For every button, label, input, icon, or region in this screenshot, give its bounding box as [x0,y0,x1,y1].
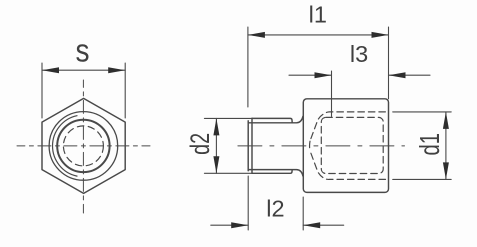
svg-text:d2: d2 [186,133,216,155]
chamfer circle [49,112,118,181]
dimension l2 extension line right [302,197,304,230]
stud bottom profile with groove and fillet [248,170,303,177]
hex nut outline [42,98,125,193]
dimension d2 extension line bottom [204,172,251,174]
dimension l2 arrow right [303,222,320,228]
front view vertical centerline [82,80,84,213]
dimension l1 extension line left [247,27,249,107]
body rounded rectangle [303,99,388,193]
stud chamfer line [251,118,253,173]
stud top profile with groove and fillet [248,116,303,123]
svg-text:l3: l3 [350,41,368,67]
hidden thread circle [63,126,103,166]
svg-text:l2: l2 [266,195,284,221]
dimension l3 line right tail [389,74,431,76]
dimension d2 arrow bottom [213,156,219,173]
dimension d2 arrow top [213,118,219,135]
dimension l1 arrow right [372,32,389,38]
dimension l1 extension line right [388,27,390,99]
internal thread outer dashed bottom [311,153,388,179]
internal thread outer dashed top [310,112,389,151]
dimension l2 extension line left [247,176,249,230]
dimension d2 line [215,118,217,173]
thread major arc (partial) [53,116,77,176]
dimension l2 line right tail [303,224,344,226]
dimension s arrow left [42,67,59,73]
svg-text:s: s [76,34,90,69]
front view horizontal centerline [17,145,150,147]
dimension l1 line [248,34,389,36]
svg-text:d1: d1 [415,133,446,155]
dimension d1 arrow top [443,112,449,129]
dimension s line [42,69,125,71]
side view horizontal centerline [238,145,405,147]
dimension d1 arrow bottom [443,162,449,179]
dimension l3 arrow left [315,72,332,78]
svg-text:l1: l1 [309,2,327,28]
dimension l2 arrow left [231,222,248,228]
dimension l1 arrow left [248,32,265,38]
dimension d1 extension line bottom [393,178,452,180]
dimension l2 line left tail [211,224,248,226]
dimension d1 extension line top [393,111,452,113]
dimension l3 line left tail [289,74,332,76]
dimension s extension line left [41,63,43,118]
dimension s extension line right [124,63,126,118]
internal thread inner dashed rectangle [321,117,383,173]
dimension d1 line [445,112,447,179]
dimension l3 arrow right [389,72,406,78]
dimension d2 extension line top [204,117,251,119]
bore circle [57,120,109,172]
dimension l3 extension line left [331,71,333,117]
stud end face [247,121,249,171]
dimension s arrow right [108,67,125,73]
